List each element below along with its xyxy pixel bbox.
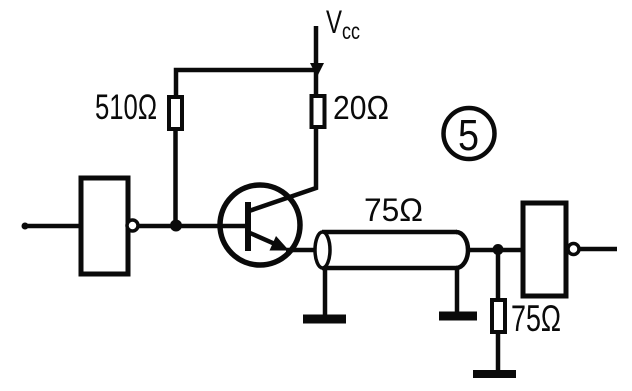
wire coax left shield stem	[323, 269, 328, 317]
junction arrow at Vcc rail	[310, 63, 324, 77]
coax right cap	[456, 232, 468, 268]
svg-text:V: V	[326, 4, 342, 40]
inverter U1 left gate body	[81, 178, 128, 274]
ground termination	[473, 370, 516, 378]
transistor Q1 base bar	[245, 202, 251, 251]
input terminal dot	[22, 223, 29, 230]
Vcc label	[326, 4, 360, 44]
wire Vcc vertical feed	[314, 26, 319, 96]
transistor Q1 emitter arrowhead	[270, 236, 290, 251]
inverter U2 output bubble	[568, 244, 579, 255]
transistor Q1 collector lead	[249, 129, 316, 211]
ground right coax	[439, 312, 477, 321]
inverter U1 output bubble	[127, 220, 138, 231]
coax line body bottom	[322, 266, 457, 271]
wire top horizontal rail	[176, 70, 318, 96]
junction dot termination node	[493, 244, 504, 255]
wire coax to right gate	[467, 248, 521, 253]
inverter U2 right gate body	[523, 203, 566, 296]
wire base node to transistor base	[176, 224, 246, 229]
coax left cap ellipse	[315, 232, 330, 268]
svg-text:20Ω: 20Ω	[333, 89, 389, 126]
transistor Q1 emitter lead	[250, 233, 284, 248]
circled 5	[444, 108, 495, 160]
wire output	[580, 247, 617, 252]
wire coax right shield stem	[455, 269, 460, 315]
coax line body top	[322, 230, 457, 235]
wire input to left gate	[25, 224, 80, 229]
resistor 75Ω termination	[492, 300, 505, 332]
wire bubble to base node	[139, 224, 176, 229]
wire termination node down to resistor	[496, 250, 501, 299]
svg-text:5: 5	[458, 111, 479, 160]
resistor 20Ω	[312, 96, 325, 127]
transistor Q1 circle	[220, 185, 300, 265]
wire 510 branch down to base node	[173, 131, 178, 226]
svg-text:510Ω: 510Ω	[95, 88, 157, 127]
wire emitter to coax	[286, 248, 316, 253]
svg-text:cc: cc	[342, 18, 360, 44]
resistor 510Ω	[169, 97, 182, 129]
ground left coax	[303, 315, 346, 324]
svg-text:75Ω: 75Ω	[511, 298, 561, 339]
junction dot base node	[170, 220, 182, 232]
wire resistor to ground	[496, 334, 501, 372]
svg-text:75Ω: 75Ω	[364, 192, 423, 228]
